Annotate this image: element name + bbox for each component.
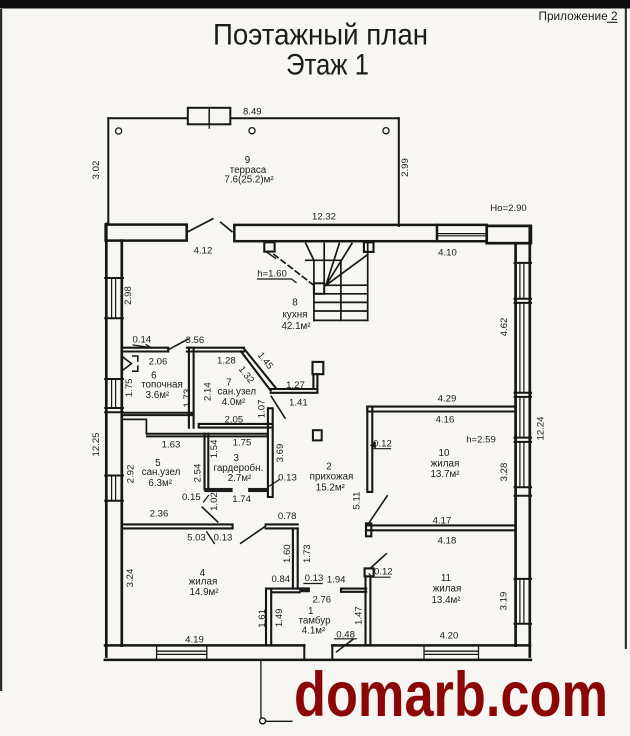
- dim 0.13 bracket near vestibule: [304, 583, 322, 585]
- svg-text:1.47: 1.47: [354, 606, 365, 625]
- terrace door leaf left: [187, 219, 213, 232]
- vestibule threshold bar: [300, 588, 310, 592]
- svg-text:2.98: 2.98: [123, 286, 134, 305]
- svg-text:5.03: 5.03: [187, 533, 206, 544]
- wc7 bottom wall: [199, 424, 273, 428]
- left wall window 3 glazing: [112, 476, 116, 501]
- flue symbol triangle: [123, 357, 132, 371]
- column block tick: [208, 124, 210, 128]
- dim 0.48 underline: [335, 638, 357, 640]
- bottom exterior wall bottom line: [105, 659, 531, 662]
- svg-text:1.27: 1.27: [286, 380, 305, 391]
- entrance door slash: [337, 639, 354, 652]
- svg-text:4.10: 4.10: [438, 248, 457, 259]
- svg-text:4.62: 4.62: [499, 318, 510, 337]
- terrace column 2: [249, 128, 255, 134]
- svg-text:2.99: 2.99: [400, 158, 411, 177]
- svg-text:1.60: 1.60: [282, 544, 293, 563]
- room11 left wall: [366, 576, 371, 645]
- room10-room11 wall: [366, 525, 516, 530]
- scan left edge line: [0, 9, 2, 691]
- svg-text:1.75: 1.75: [233, 438, 252, 449]
- svg-text:0.15: 0.15: [182, 492, 201, 503]
- svg-text:жилая: жилая: [189, 577, 218, 588]
- svg-text:0.84: 0.84: [271, 574, 290, 585]
- svg-text:8: 8: [292, 298, 298, 309]
- flue box: [313, 362, 324, 374]
- svg-text:3.69: 3.69: [275, 444, 286, 463]
- svg-text:8.49: 8.49: [243, 107, 262, 118]
- svg-text:4.29: 4.29: [438, 394, 457, 405]
- svg-text:0.12: 0.12: [374, 567, 393, 578]
- svg-text:жилая: жилая: [433, 583, 462, 594]
- svg-text:4.12: 4.12: [194, 246, 213, 257]
- scan right edge line: [625, 8, 627, 649]
- svg-text:жилая: жилая: [431, 458, 460, 469]
- svg-text:2.92: 2.92: [126, 465, 137, 484]
- room10 door leaf: [369, 496, 388, 523]
- svg-text:Поэтажный план: Поэтажный план: [213, 19, 428, 52]
- svg-text:1.61: 1.61: [257, 609, 268, 628]
- svg-text:1.07: 1.07: [257, 400, 268, 419]
- svg-text:сан.узел: сан.узел: [217, 387, 256, 398]
- vestibule top wall: [271, 589, 299, 593]
- stair middle rail: [340, 260, 342, 320]
- stair landing box: [314, 283, 324, 294]
- wc5 door leaf: [202, 507, 218, 522]
- underline under 2: [607, 21, 618, 23]
- svg-text:1.73: 1.73: [182, 389, 193, 408]
- svg-text:2.14: 2.14: [203, 382, 214, 401]
- room11 door leaf: [371, 554, 387, 568]
- wc5 top wall: [147, 434, 268, 437]
- svg-text:4.0м²: 4.0м²: [222, 397, 246, 408]
- dim 0.14 leader arrow: [133, 345, 151, 348]
- wc7 top wall: [187, 348, 244, 352]
- wc5 corner step wall: [122, 419, 146, 433]
- svg-text:3.19: 3.19: [499, 592, 510, 611]
- wc7 right wall stub: [271, 374, 318, 393]
- svg-text:1.54: 1.54: [209, 439, 220, 458]
- svg-text:Приложение 2: Приложение 2: [538, 9, 617, 23]
- flue symbol brackets: [133, 356, 138, 371]
- svg-text:3.6м²: 3.6м²: [146, 390, 170, 401]
- svg-text:12.32: 12.32: [312, 212, 336, 223]
- stair left slant: [306, 244, 314, 261]
- svg-text:13.4м²: 13.4м²: [431, 595, 461, 606]
- svg-text:0.12: 0.12: [373, 439, 392, 450]
- bottom wall window 2: [424, 645, 479, 660]
- wardrobe left wall: [205, 434, 209, 490]
- svg-text:4.17: 4.17: [433, 515, 452, 526]
- left exterior wall outer line: [105, 224, 108, 657]
- wc7 door leaf: [271, 396, 285, 418]
- right wall sill lines: [515, 263, 532, 624]
- boiler room bottom wall: [122, 413, 192, 415]
- svg-text:3.02: 3.02: [91, 161, 102, 180]
- wc7 left wall: [189, 348, 194, 428]
- svg-text:2.06: 2.06: [149, 357, 168, 368]
- stair treads: [314, 294, 368, 321]
- room10 wall left tab: [366, 523, 371, 536]
- hall-room4 wall: [266, 524, 298, 528]
- svg-text:5.11: 5.11: [352, 492, 363, 510]
- stair winder riser up: [323, 244, 325, 284]
- svg-text:1.02: 1.02: [209, 492, 220, 511]
- column block divider: [208, 108, 210, 125]
- svg-text:1.28: 1.28: [217, 356, 236, 367]
- left exterior wall inner line: [120, 241, 123, 646]
- terrace right wall: [398, 118, 400, 226]
- left wall window 2 glazing: [112, 379, 116, 408]
- svg-text:3.24: 3.24: [125, 568, 136, 587]
- terrace top wall: [108, 117, 399, 119]
- svg-text:domarb.com: domarb.com: [294, 660, 608, 730]
- terrace column 1: [116, 128, 122, 134]
- terrace top column block: [188, 108, 231, 125]
- stair right rail: [367, 244, 369, 321]
- vestibule top wall stub: [341, 589, 366, 592]
- svg-text:гардеробн.: гардеробн.: [213, 463, 263, 474]
- svg-text:h=2.59: h=2.59: [466, 434, 496, 445]
- svg-text:14.9м²: 14.9м²: [189, 587, 219, 598]
- stair winder risers fan: [326, 244, 368, 286]
- svg-text:12.25: 12.25: [91, 432, 102, 456]
- svg-text:7.6(25.2)м²: 7.6(25.2)м²: [224, 175, 274, 186]
- top main exterior wall: [234, 225, 437, 241]
- right wall windows glazing: [520, 263, 524, 299]
- svg-text:2.36: 2.36: [150, 509, 169, 520]
- porch circle: [260, 718, 266, 724]
- svg-text:Но=2.90: Но=2.90: [490, 203, 527, 214]
- svg-text:2.54: 2.54: [192, 463, 203, 482]
- svg-text:0.13: 0.13: [214, 533, 233, 544]
- wc5 dim leader: [204, 496, 209, 503]
- svg-text:Этаж 1: Этаж 1: [286, 49, 369, 82]
- stair wall tab right: [364, 242, 374, 252]
- room4 right wall: [266, 589, 271, 646]
- dim slash 5.03/0.13: [207, 532, 215, 543]
- svg-text:0.48: 0.48: [336, 630, 355, 641]
- svg-text:1.63: 1.63: [162, 439, 181, 450]
- svg-text:3.56: 3.56: [186, 335, 205, 346]
- top wall window glazing: [437, 224, 487, 227]
- svg-text:прихожая: прихожая: [310, 471, 354, 482]
- hall-room4 door leaf: [241, 526, 266, 543]
- stair wall tab left: [264, 242, 274, 251]
- dim 0.12 room10 underline and arrow: [374, 448, 391, 450]
- svg-text:0.14: 0.14: [132, 334, 151, 345]
- svg-text:3.28: 3.28: [499, 463, 510, 482]
- svg-text:1.74: 1.74: [232, 494, 251, 505]
- wc7 chamfer wall: [241, 349, 276, 391]
- svg-text:1.75: 1.75: [124, 378, 135, 397]
- dim 0.12 room11 underline and hook: [369, 574, 390, 577]
- svg-text:топочная: топочная: [141, 379, 183, 390]
- hall small box symbol: [313, 430, 322, 440]
- left wall sill lines: [105, 278, 123, 501]
- svg-text:6.3м²: 6.3м²: [148, 478, 172, 489]
- svg-text:0.13: 0.13: [305, 573, 324, 584]
- svg-text:4.18: 4.18: [438, 536, 457, 547]
- boiler room door leaf: [168, 339, 188, 350]
- hall-vestibule wall: [293, 528, 298, 588]
- entrance door jambs: [304, 645, 332, 660]
- wardrobe right wall: [268, 408, 273, 497]
- svg-text:4.20: 4.20: [440, 631, 459, 642]
- h=1.60 underline: [258, 279, 297, 283]
- top-left exterior wall segment: [106, 225, 187, 241]
- boiler room top wall: [122, 348, 168, 352]
- room10 top wall: [367, 407, 515, 412]
- terrace column 3: [383, 128, 389, 134]
- bottom wall window 1: [157, 645, 207, 660]
- room10 left wall: [367, 407, 372, 492]
- bottom exterior wall top line: [105, 644, 530, 647]
- svg-text:0.13: 0.13: [278, 473, 297, 484]
- terrace left wall: [107, 118, 109, 224]
- svg-text:15.2м²: 15.2м²: [316, 482, 346, 493]
- svg-text:1.73: 1.73: [302, 544, 313, 563]
- svg-text:4.16: 4.16: [436, 415, 455, 426]
- top-right corner wall block: [487, 226, 531, 243]
- svg-text:4.19: 4.19: [185, 635, 204, 646]
- svg-text:1.94: 1.94: [327, 574, 346, 585]
- svg-text:4.1м²: 4.1м²: [302, 625, 326, 636]
- svg-text:42.1м²: 42.1м²: [281, 321, 311, 332]
- terrace door leaf right: [221, 222, 232, 231]
- wc5 bottom wall: [122, 524, 233, 528]
- tick under left tab: [267, 252, 276, 258]
- porch bottom line: [266, 720, 292, 722]
- svg-text:2.05: 2.05: [225, 415, 244, 426]
- right exterior wall inner line: [514, 243, 517, 645]
- left wall window 1 glazing: [112, 278, 116, 318]
- svg-text:2.7м²: 2.7м²: [228, 473, 252, 484]
- scan top black bar: [0, 0, 630, 9]
- svg-text:0.78: 0.78: [278, 511, 297, 522]
- stair left rail: [313, 260, 315, 320]
- svg-text:кухня: кухня: [283, 310, 308, 321]
- stair upper tread edge: [306, 259, 341, 261]
- room11 wall top tab: [365, 568, 374, 576]
- svg-text:12.24: 12.24: [535, 416, 546, 441]
- svg-text:h=1.60: h=1.60: [257, 269, 287, 280]
- svg-text:1.41: 1.41: [289, 397, 308, 408]
- headroom dashed line: [274, 255, 313, 285]
- svg-text:сан.узел: сан.узел: [142, 467, 181, 478]
- svg-text:1.49: 1.49: [274, 608, 285, 627]
- svg-text:2.76: 2.76: [312, 595, 331, 606]
- porch line: [260, 661, 262, 718]
- wardrobe dim leader: [270, 480, 280, 487]
- right exterior wall outer line: [528, 226, 531, 657]
- svg-text:13.7м²: 13.7м²: [430, 469, 460, 480]
- wardrobe bottom wall bars: [205, 488, 233, 492]
